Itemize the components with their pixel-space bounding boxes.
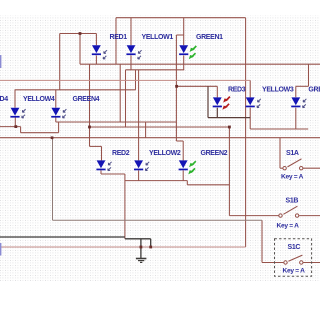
wire vertical x=80 bbox=[79, 34, 81, 65]
wire GREEN2 cathode bbox=[182, 170, 184, 180]
wire vertical x=52.5 bbox=[52, 138, 54, 221]
LED YELLOW2 bbox=[134, 160, 143, 170]
wire x=308.2 up bbox=[307, 128, 309, 130]
wire vertical x=89.5 bbox=[89, 64, 91, 146]
wire top bus y=17.7 bbox=[116, 17, 246, 19]
wire vertical x=120.2 bbox=[119, 64, 121, 122]
wire GREEN1 anode stub bbox=[183, 35, 185, 45]
wire ground stem bbox=[140, 239, 142, 258]
wire YELLOW4 cathode bbox=[14, 117, 16, 126]
wire RED2 cathode bbox=[100, 170, 102, 174]
wire S1A output bbox=[303, 167, 320, 169]
wire YELLOW3 cathode bbox=[249, 108, 251, 129]
svg-text:YELLOW2: YELLOW2 bbox=[149, 150, 181, 157]
border fragment lower bbox=[0, 243, 1, 256]
wire GREEN1 cathode bbox=[183, 55, 185, 69]
wire S1A feed vertical x=280 bbox=[279, 138, 281, 169]
wire bus y=127 bbox=[90, 126, 230, 128]
wire y=126.6 to left edge bbox=[0, 126, 21, 128]
wire GREEN1 box left vertical bbox=[175, 35, 177, 138]
wire vertical x=262 from long wire to S1C bbox=[261, 220, 263, 262]
svg-text:GREEN3: GREEN3 bbox=[308, 87, 320, 94]
wire GREEN2 feed stub bbox=[175, 138, 177, 141]
wire vertical x=229.4 bbox=[228, 127, 230, 216]
wire dark horizontal y=237 from left bbox=[0, 236, 125, 238]
switch S1B bbox=[279, 206, 299, 217]
junction at 52,137.7 bbox=[51, 136, 54, 139]
wire bus y=122 bbox=[56, 121, 177, 123]
svg-text:Key = A: Key = A bbox=[283, 267, 306, 274]
wire long horizontal y=247 bbox=[0, 246, 246, 248]
wire YELLOW4 anode bbox=[14, 90, 16, 108]
switch S1A bbox=[283, 159, 303, 170]
wire RED3 box bottom bbox=[208, 117, 250, 119]
LED YELLOW3 bbox=[246, 97, 255, 107]
svg-text:RED2: RED2 bbox=[112, 150, 130, 157]
wire RED2 anode horizontal bbox=[90, 145, 102, 147]
wire YELLOW2 feed x=138.6 bbox=[138, 70, 140, 161]
wire long horizontal y=220.3 bbox=[53, 219, 263, 221]
junction at 229.4,127 bbox=[228, 126, 231, 129]
wire long horizontal y=64.2 bbox=[80, 63, 320, 65]
wire RED1 anode bbox=[95, 34, 97, 46]
wire RED2 cathode horizontal y=174 bbox=[101, 173, 125, 175]
wire y=132.7 bbox=[21, 132, 59, 134]
junction at 89.5,127 bbox=[88, 126, 91, 129]
wire y=184.8 to right bbox=[187, 184, 229, 186]
svg-text:GREEN4: GREEN4 bbox=[73, 96, 100, 103]
wire YELLOW3 anode from y=80.4 bbox=[249, 80, 251, 97]
wire long horizontal y=137.7 bbox=[0, 137, 320, 139]
wire YELLOW1 cathode down bbox=[130, 55, 132, 69]
wire cathode chain y=129 bbox=[250, 128, 308, 130]
wire cathode bus y=180.6 bbox=[125, 180, 187, 182]
wire GREEN3 anode jog bbox=[308, 64, 310, 86]
wire dark y=238.8 step bbox=[125, 238, 151, 240]
wire S1B output bbox=[299, 215, 320, 217]
switch S1C bbox=[284, 255, 303, 264]
LED RED3 (lit) bbox=[213, 97, 222, 107]
wire S1B input y=215.6 bbox=[229, 215, 281, 217]
wire RED3 cathode bbox=[216, 108, 218, 118]
junction at 150.7,247 bbox=[149, 246, 152, 249]
LED GREEN3 bbox=[291, 97, 300, 107]
svg-text:YELLOW4: YELLOW4 bbox=[23, 96, 55, 103]
wire vertical x=124.9 down to ground area bbox=[124, 174, 126, 239]
wire GREEN2 feed horizontal y=141 bbox=[176, 140, 183, 142]
wire S1C input horizontal y=262.5 bbox=[262, 262, 283, 264]
wire long horizontal y=80.4 bbox=[0, 79, 250, 81]
wire step up x=58.6 bbox=[58, 122, 60, 133]
wire GREEN2 anode vertical bbox=[182, 141, 184, 160]
LED GREEN2 (lit) bbox=[179, 160, 188, 170]
junction at 140.9,247 bbox=[140, 246, 143, 249]
selection box S1C bbox=[275, 239, 312, 277]
svg-text:S1B: S1B bbox=[286, 197, 299, 204]
svg-text:RED4: RED4 bbox=[0, 96, 8, 103]
wire RED2 anode vertical bbox=[101, 146, 103, 160]
wire vertical x=145.6 bbox=[145, 122, 147, 138]
border fragment upper bbox=[0, 55, 1, 68]
svg-text:S1C: S1C bbox=[288, 244, 301, 251]
wire RED3 feed horizontal y=86.3 bbox=[176, 85, 217, 87]
junction at 80,33.5 bbox=[79, 32, 82, 35]
LED YELLOW4 bbox=[10, 108, 19, 118]
svg-text:Key = A: Key = A bbox=[281, 173, 304, 180]
LED GREEN4 bbox=[51, 108, 60, 118]
wire GREEN3 cathode bbox=[295, 108, 297, 129]
wire vertical x=135.5 bbox=[135, 70, 137, 90]
svg-text:RED1: RED1 bbox=[110, 34, 128, 41]
wire YELLOW1 anode bbox=[130, 18, 132, 46]
junction at 176.6,86.3 bbox=[175, 85, 178, 88]
LED RED1 bbox=[92, 45, 101, 55]
wire GREEN1 anode from top bbox=[183, 18, 185, 35]
wire YELLOW2 cathode bbox=[138, 170, 140, 180]
wire RED3 box left vertical bbox=[207, 86, 209, 117]
ground bbox=[136, 258, 147, 260]
svg-text:GREEN2: GREEN2 bbox=[201, 150, 228, 157]
wire right long vertical x=245.6 bbox=[245, 18, 247, 247]
wire GREEN4 anode bbox=[55, 90, 57, 108]
LED RED2 bbox=[96, 160, 105, 170]
wire left box vertical x=116 bbox=[115, 18, 117, 64]
wire dark vertical x=150.7 to pink bus bbox=[150, 239, 152, 247]
wire anode bus y=33.5 bbox=[60, 33, 97, 35]
wire vertical x=125.5 bbox=[125, 70, 127, 127]
wire horizontal y=69.8 bbox=[126, 69, 185, 71]
wire RED3 anode vertical bbox=[216, 86, 218, 97]
svg-text:GREEN1: GREEN1 bbox=[196, 34, 223, 41]
wire GREEN1 box top bbox=[176, 34, 183, 36]
svg-text:S1A: S1A bbox=[286, 150, 299, 157]
svg-text:YELLOW1: YELLOW1 bbox=[142, 34, 174, 41]
wire GREEN4 cathode bbox=[55, 117, 57, 122]
LED YELLOW1 bbox=[126, 45, 135, 55]
wire row4 anode bus y=89.8 bbox=[15, 89, 136, 91]
wire RED1 cathode bbox=[95, 55, 97, 64]
junction at 15.8,126.6 bbox=[14, 125, 17, 128]
wire jog x=187.3 bbox=[186, 181, 188, 185]
wire vertical x=59.7 bbox=[59, 34, 61, 90]
svg-text:YELLOW3: YELLOW3 bbox=[262, 87, 294, 94]
wire S1C output bbox=[303, 262, 320, 264]
LED GREEN1 (lit) bbox=[179, 45, 188, 55]
svg-text:Key = A: Key = A bbox=[277, 223, 300, 230]
svg-text:RED3: RED3 bbox=[228, 87, 246, 94]
wire step down x=20.6 bbox=[20, 127, 22, 133]
